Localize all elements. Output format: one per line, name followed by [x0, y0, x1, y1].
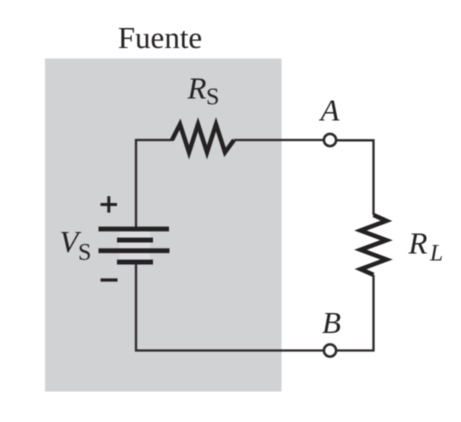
battery VS plate 1 (long positive plate): [99, 227, 170, 232]
wire terminal A to resistor RL: [337, 140, 374, 215]
svg-text:R: R: [408, 226, 428, 261]
label B: [322, 305, 341, 340]
wire resistor RL to terminal B: [337, 275, 374, 351]
resistor RL (vertical zigzag): [361, 215, 387, 275]
wire terminal B to battery negative terminal: [136, 262, 323, 351]
battery cell light band: [120, 229, 151, 263]
battery VS plate 4 (short negative plate): [117, 260, 153, 265]
label A: [319, 93, 341, 128]
label RL: [408, 226, 444, 267]
battery negative polarity mark (-): [101, 278, 118, 281]
node A terminal (open circle): [324, 134, 336, 146]
battery VS plate 3 (long plate): [99, 248, 170, 253]
wire RS to terminal A: [234, 139, 323, 141]
svg-text:B: B: [322, 305, 341, 340]
svg-text:Fuente: Fuente: [118, 20, 202, 55]
resistor RS (zigzag): [172, 124, 234, 152]
svg-text:S: S: [206, 85, 219, 111]
svg-text:A: A: [319, 93, 341, 128]
svg-text:R: R: [187, 71, 207, 106]
wire battery positive terminal to resistor RS: [136, 140, 173, 229]
node B terminal (open circle): [324, 344, 336, 356]
label Fuente (title of source block): [118, 20, 202, 55]
source region shading box: [45, 59, 282, 392]
label VS (source voltage): [60, 224, 92, 266]
svg-text:L: L: [429, 241, 443, 267]
battery positive polarity mark (+): [101, 196, 118, 212]
svg-text:S: S: [78, 240, 91, 266]
battery VS plate 2 (short plate): [117, 238, 153, 243]
label RS: [187, 71, 220, 111]
